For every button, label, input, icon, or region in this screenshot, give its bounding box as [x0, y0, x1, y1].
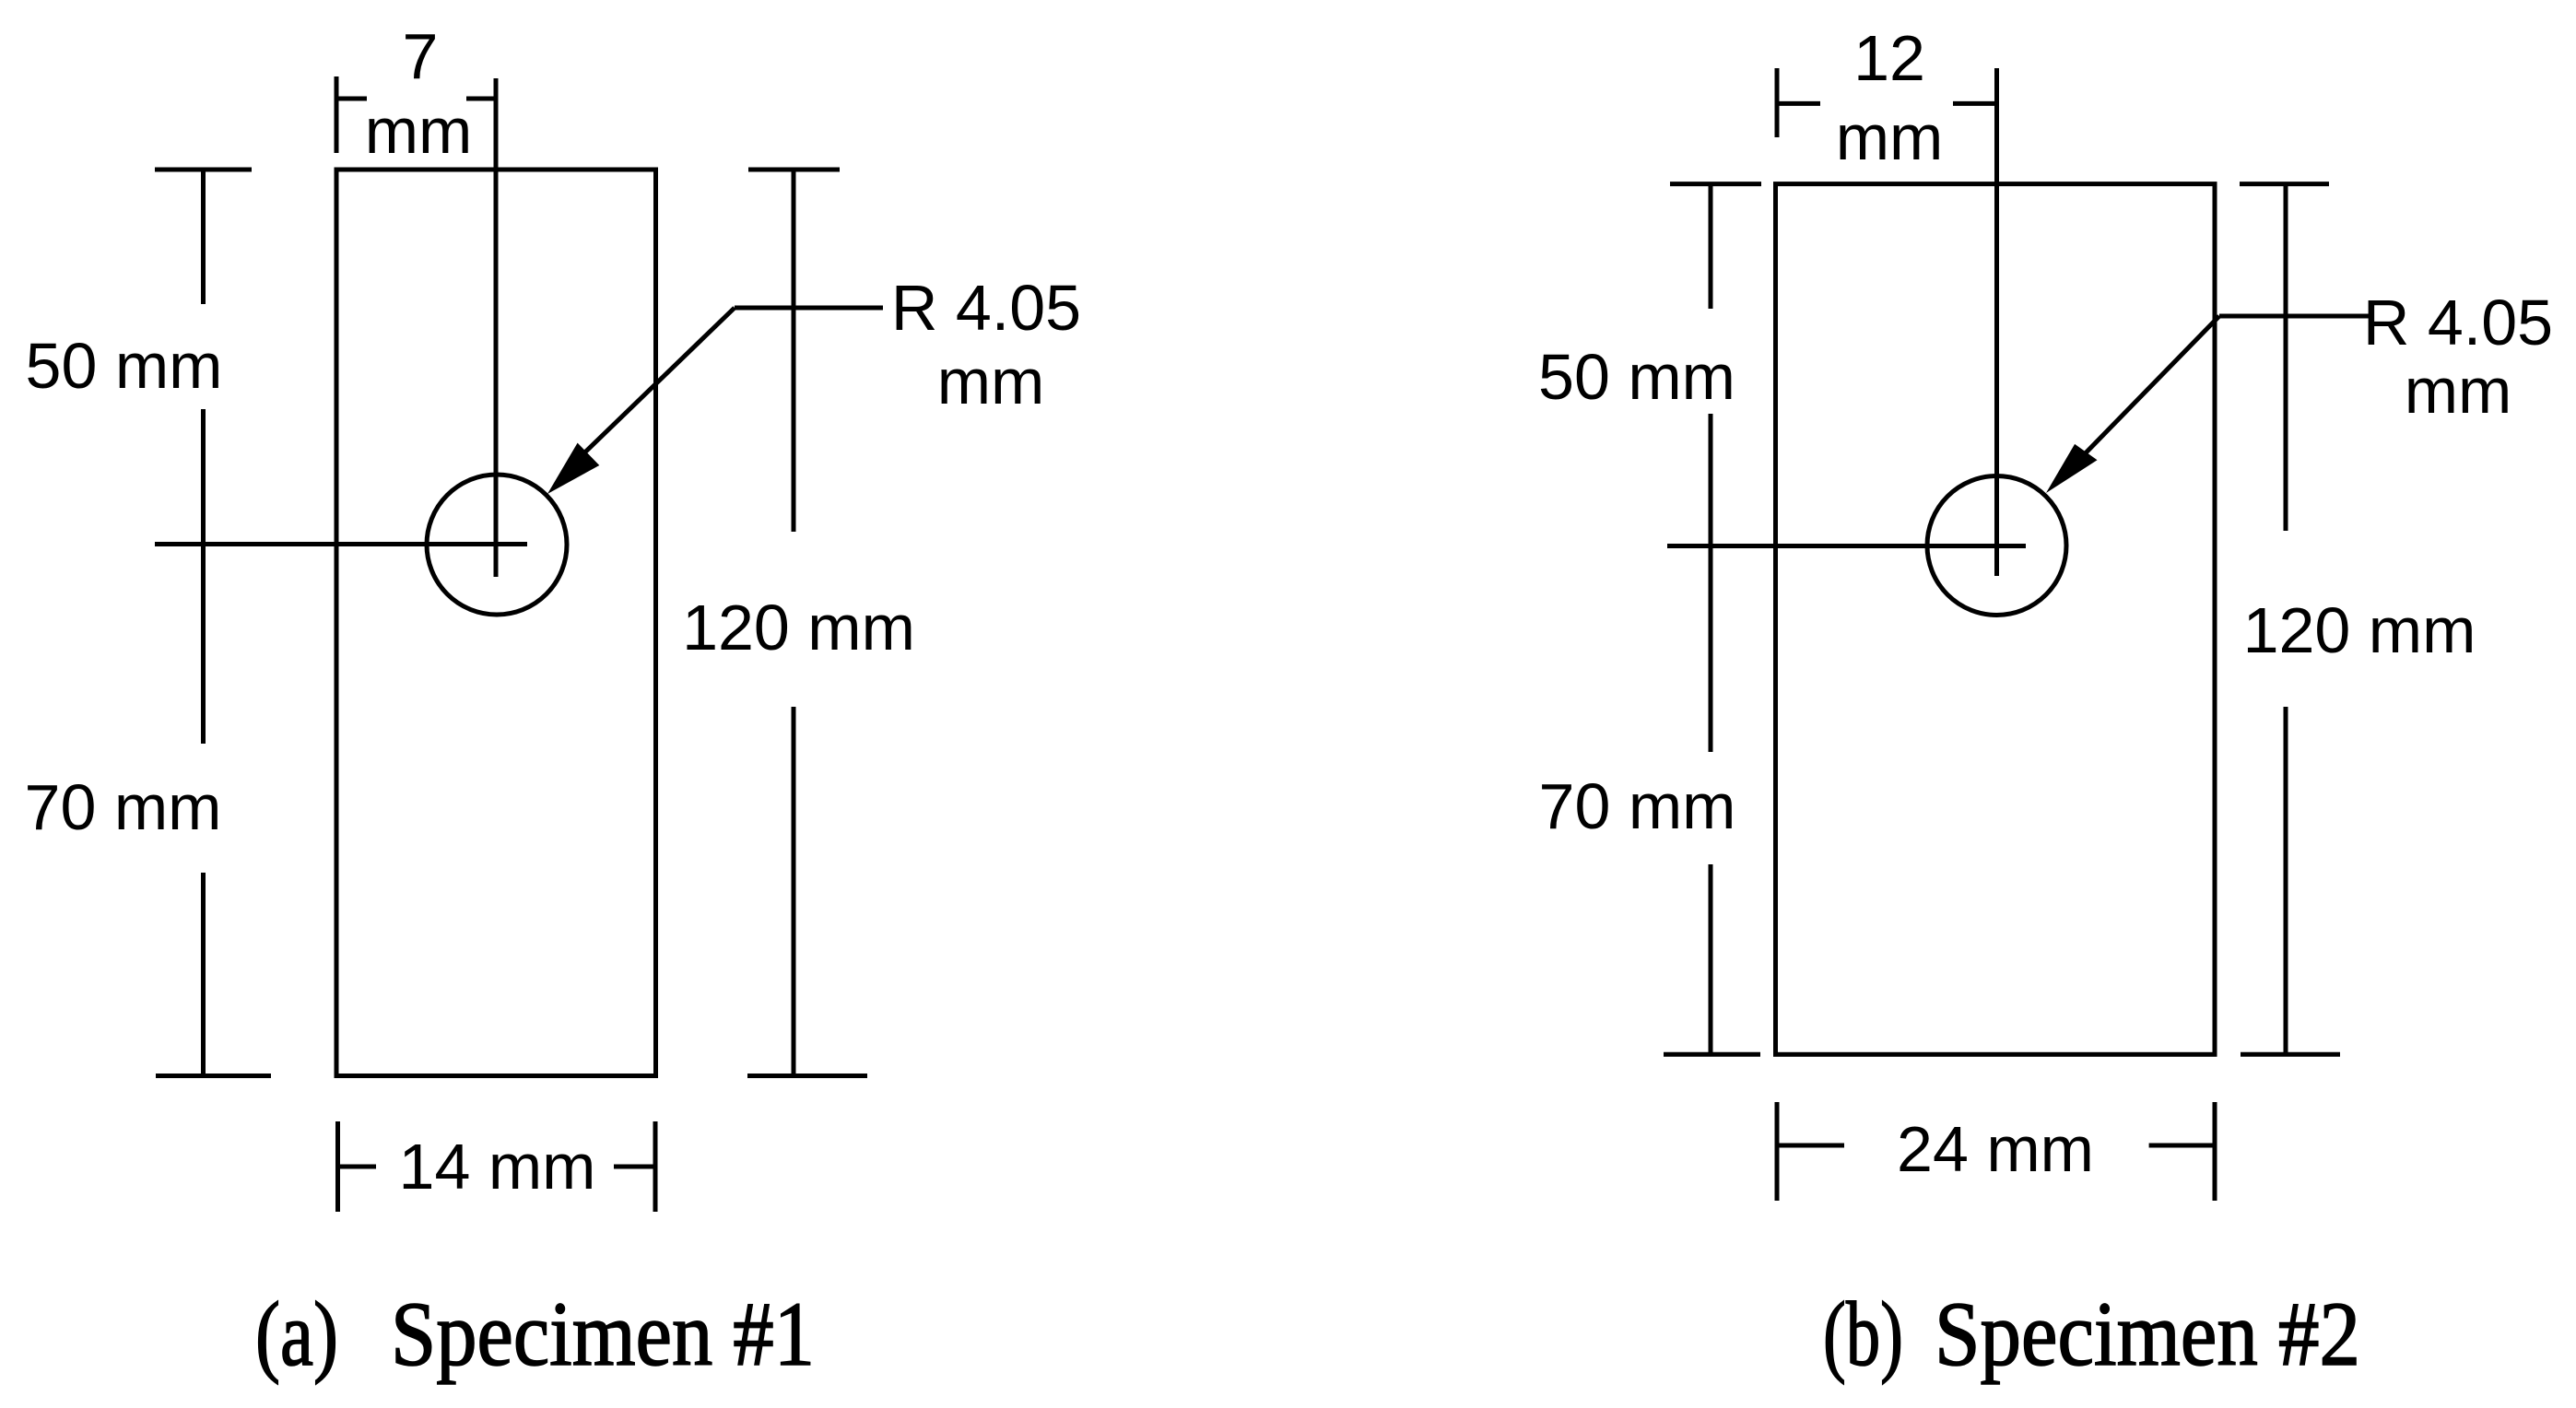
specimen #1 left dimension bottom tick bar: [156, 1074, 271, 1078]
svg-text:70 mm: 70 mm: [25, 771, 222, 843]
svg-text:14 mm: 14 mm: [399, 1131, 596, 1203]
specimen #1 14mm dimension right tick: [653, 1121, 658, 1212]
specimen #1 radius leader horizontal segment: [735, 306, 883, 311]
specimen #1 hole vertical centerline: [494, 78, 499, 577]
specimen #2 12mm dimension line right stub: [1953, 101, 1997, 106]
svg-text:7: 7: [403, 20, 439, 92]
specimen #1 left dimension line upper segment: [201, 170, 206, 304]
specimen #1 14mm dimension left tick: [335, 1121, 340, 1212]
specimen #1 left dimension line middle segment: [201, 409, 206, 744]
specimen #2 120mm dimension top tick bar: [2240, 182, 2329, 186]
svg-text:(b): (b): [1823, 1283, 1903, 1385]
svg-text:120 mm: 120 mm: [682, 592, 915, 663]
specimen #2 24mm dimension left tick: [1775, 1102, 1780, 1201]
svg-text:50 mm: 50 mm: [26, 330, 223, 402]
specimen #1 7mm dimension line right stub: [466, 97, 496, 101]
specimen #2 left dimension line middle segment: [1709, 414, 1713, 752]
specimen #1 14mm dimension line left stub: [338, 1165, 377, 1169]
svg-text:mm: mm: [1836, 101, 1944, 173]
svg-text:(a): (a): [255, 1283, 338, 1385]
specimen #1 left dimension top tick bar: [155, 168, 252, 172]
specimen #2 120mm dimension bottom tick bar: [2241, 1052, 2340, 1057]
specimen #2 radius leader horizontal segment: [2219, 314, 2370, 319]
svg-text:R 4.05: R 4.05: [2363, 287, 2553, 358]
specimen #2 hole circle: [1927, 476, 2066, 616]
svg-text:Specimen #1: Specimen #1: [391, 1283, 815, 1385]
specimen #1 120mm dimension bottom tick bar: [747, 1074, 867, 1078]
specimen #1 left dimension line lower segment: [201, 873, 206, 1076]
specimen #2 24mm dimension right tick: [2213, 1102, 2217, 1201]
svg-text:50 mm: 50 mm: [1538, 341, 1735, 413]
specimen #2 12mm dimension left tick: [1775, 68, 1780, 137]
specimen #1 120mm dimension line lower segment: [792, 707, 796, 1076]
specimen #2 120mm dimension line lower segment: [2284, 707, 2288, 1054]
specimen #1 120mm dimension top tick bar: [748, 168, 840, 172]
specimen #2 hole horizontal centerline: [1667, 544, 2026, 548]
specimen #2 left dimension bottom tick bar: [1664, 1052, 1760, 1057]
specimen #1 radius leader diagonal shaft: [570, 308, 735, 467]
specimen #2 radius leader diagonal shaft: [2068, 316, 2219, 471]
specimen #2 hole vertical centerline: [1994, 68, 1999, 576]
svg-text:120 mm: 120 mm: [2243, 594, 2476, 666]
specimen #2 plate outline: [1776, 184, 2216, 1055]
specimen #1 120mm dimension line upper segment: [792, 170, 796, 532]
svg-text:24 mm: 24 mm: [1897, 1113, 2094, 1185]
svg-text:mm: mm: [365, 95, 473, 167]
svg-text:12: 12: [1853, 22, 1925, 94]
specimen #2 left dimension line lower segment: [1709, 864, 1713, 1054]
svg-text:Specimen #2: Specimen #2: [1935, 1283, 2360, 1385]
specimen #2 12mm dimension line left stub: [1777, 101, 1820, 106]
svg-text:R 4.05: R 4.05: [891, 272, 1081, 344]
specimen #1 14mm dimension line right stub: [614, 1165, 655, 1169]
specimen #2 left dimension top tick bar: [1670, 182, 1761, 186]
specimen #1 hole circle: [427, 475, 567, 615]
specimen #2 120mm dimension line upper segment: [2284, 184, 2288, 531]
specimen #1 7mm dimension left tick: [335, 76, 339, 153]
specimen #1 plate outline: [336, 170, 656, 1076]
specimen #2 radius leader arrowhead: [2046, 444, 2098, 493]
specimen #2 left dimension line upper segment: [1709, 184, 1713, 309]
specimen #2 24mm dimension line right stub: [2149, 1144, 2215, 1148]
svg-text:mm: mm: [937, 346, 1045, 417]
specimen #2 24mm dimension line left stub: [1777, 1144, 1844, 1148]
specimen #1 radius leader arrowhead: [547, 443, 599, 494]
specimen #1 7mm dimension line left stub: [336, 97, 367, 101]
svg-text:mm: mm: [2405, 355, 2512, 427]
specimen #1 hole horizontal centerline: [155, 542, 527, 546]
svg-text:70 mm: 70 mm: [1539, 770, 1736, 842]
